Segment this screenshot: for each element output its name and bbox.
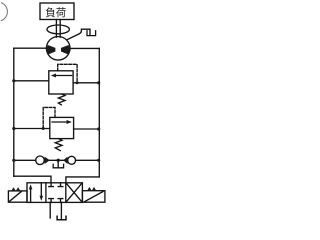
motor drain line [67, 29, 90, 40]
check valve C1 poppet [45, 157, 50, 164]
DCV left position down arrow [40, 183, 42, 199]
wire: check line [14, 159, 100, 161]
wire: make-up tank drop [57, 160, 59, 167]
coupling ellipse [47, 25, 69, 34]
svg-text:負荷: 負荷 [45, 7, 66, 19]
load box (負荷) [40, 3, 74, 20]
DCV right position crossed arrows [67, 184, 82, 202]
DCV partition 1 [45, 183, 47, 203]
solenoid SOL-a box [8, 191, 27, 202]
DCV partition 2 [65, 183, 67, 203]
drain tank T2 [87, 31, 96, 36]
node: right rail / V1 [97, 81, 100, 84]
V2 spring [55, 139, 62, 151]
wire: T return drop [60, 202, 62, 219]
figure-number arc (cut off at left edge) [1, 3, 7, 21]
V1 internal arrow (points left) [54, 75, 72, 77]
node: left rail / V1 [12, 79, 15, 82]
wire: right rail [98, 48, 100, 177]
motor triangle right [61, 45, 70, 55]
SOL-b slash [85, 192, 103, 202]
V2 right port wire [74, 128, 100, 130]
V1 right port wire [73, 82, 99, 84]
directional valve DCV body [27, 183, 82, 203]
solenoid SOL-b box [82, 191, 105, 203]
node: right rail / V2 [97, 127, 100, 130]
motor shaft (double line) [56, 20, 60, 38]
SOL-b spring peaks [87, 187, 96, 191]
motor triangle left [47, 45, 56, 55]
counterbalance valve V2 box [50, 117, 74, 138]
wire: B line (right rail to DCV) [66, 177, 99, 183]
wire: A line (left rail to DCV) [14, 176, 51, 183]
V1 left port wire [14, 80, 49, 82]
hydraulic motor M1 circle [46, 37, 70, 61]
check valve C1 ball [36, 156, 45, 165]
node: make-up tap [57, 159, 60, 162]
wire: top rail right [70, 47, 99, 49]
DCV centre blocked port marks [49, 183, 54, 187]
node: left rail / V2 [12, 127, 15, 130]
check valve C2 poppet [63, 157, 67, 164]
wire: top rail left [14, 47, 47, 49]
node: V2 pilot tap [42, 127, 45, 130]
V2 internal arrow (points right) [52, 121, 70, 123]
node: right rail / check line [97, 159, 100, 162]
node: V1 pilot tap [76, 81, 79, 84]
check valve C2 ball [68, 156, 76, 164]
node: left rail / check line [12, 159, 15, 162]
make-up tank T3 [53, 164, 63, 168]
V2 left port wire [14, 128, 50, 130]
SOL-a slash [9, 192, 21, 202]
DCV left position up arrow [30, 187, 32, 203]
V1 pilot line (dashed) [58, 64, 77, 82]
counterbalance valve V1 box [49, 71, 73, 94]
V2 pilot line (dashed) [43, 107, 55, 128]
return tank T1 [57, 216, 66, 220]
V1 spring [58, 94, 65, 105]
wire: P supply line [49, 202, 51, 218]
SOL-a spring peaks [11, 187, 20, 191]
wire: left rail [13, 48, 15, 176]
